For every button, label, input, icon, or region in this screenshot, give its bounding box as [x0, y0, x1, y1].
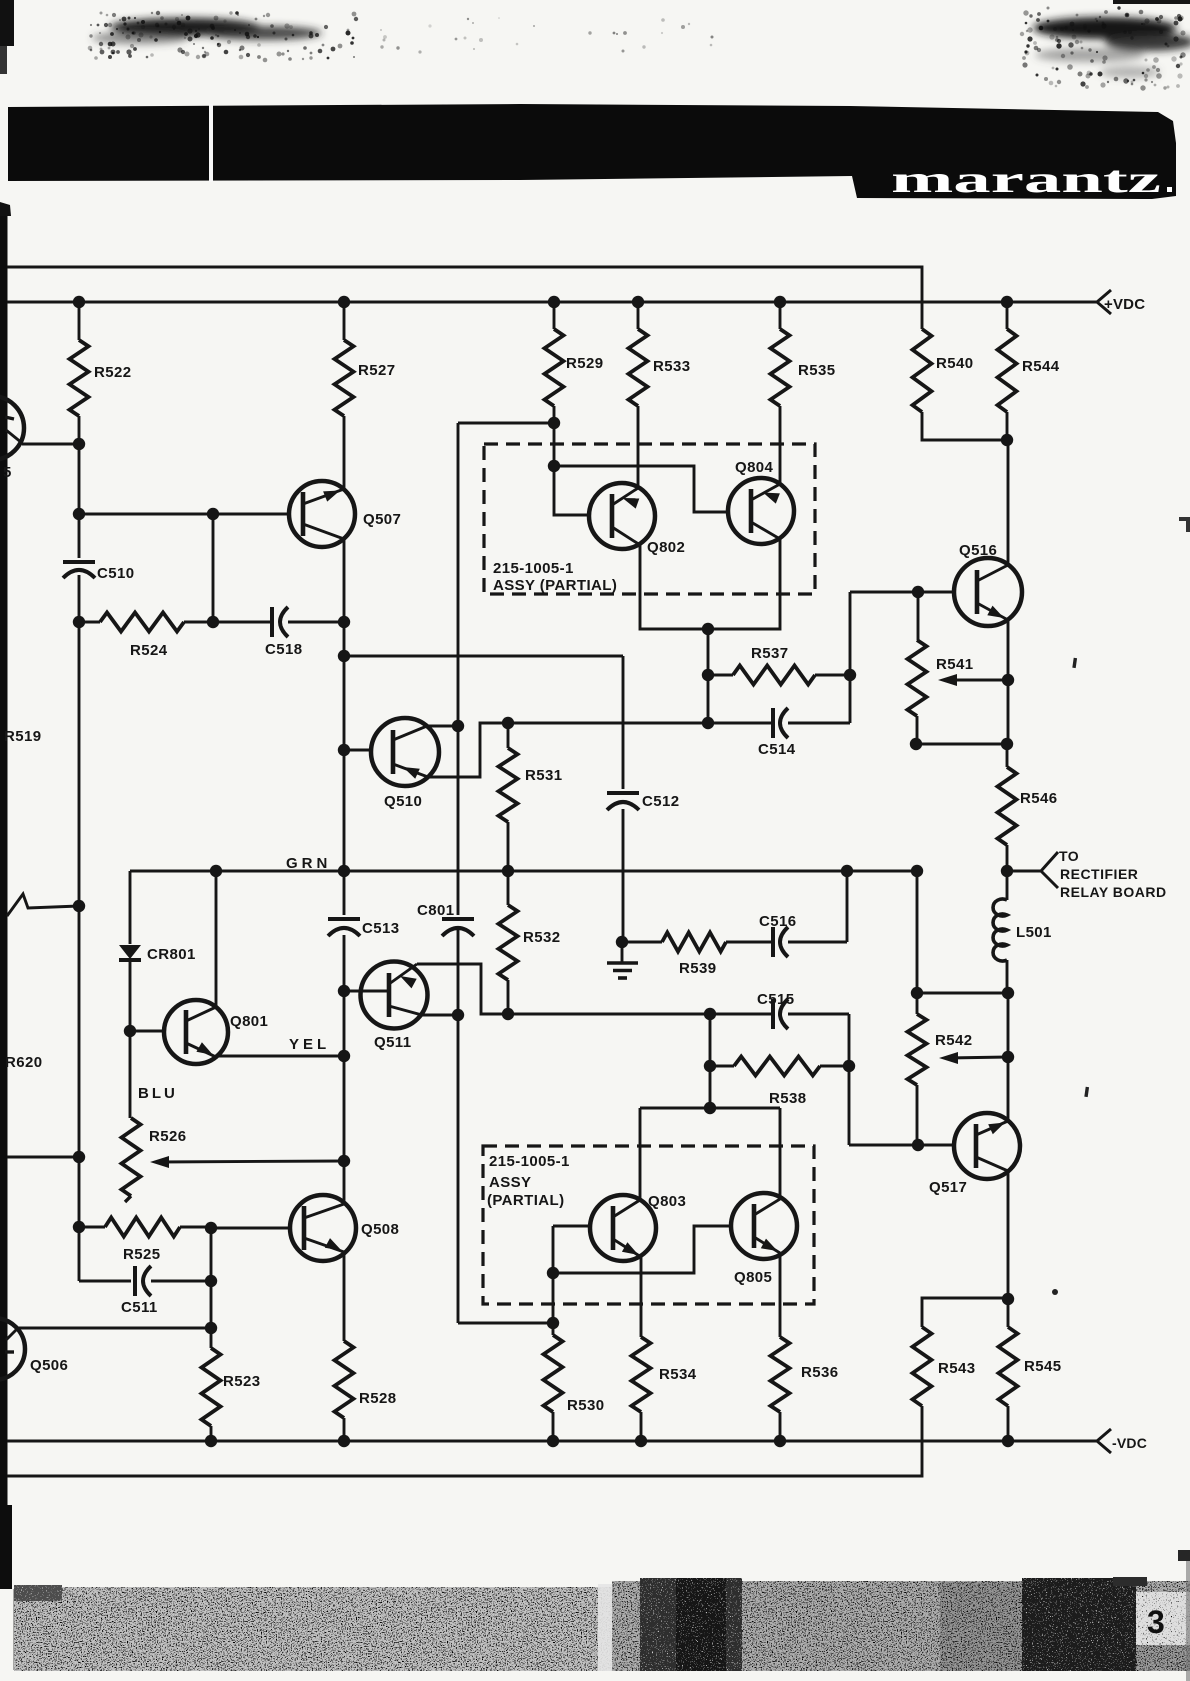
svg-text:R532: R532 [523, 929, 560, 946]
svg-text:Q508: Q508 [361, 1221, 399, 1238]
svg-text:C518: C518 [265, 641, 302, 658]
svg-text:TO: TO [1059, 848, 1079, 864]
svg-text:Q805: Q805 [734, 1269, 772, 1286]
svg-text:R533: R533 [653, 358, 690, 375]
svg-text:R530: R530 [567, 1397, 604, 1414]
svg-text:C512: C512 [642, 793, 679, 810]
svg-text:+VDC: +VDC [1104, 296, 1145, 313]
svg-text:Q804: Q804 [735, 459, 774, 476]
svg-text:R519: R519 [4, 728, 41, 745]
svg-text:C515: C515 [757, 991, 794, 1008]
svg-text:Q510: Q510 [384, 793, 422, 810]
svg-text:R541: R541 [936, 656, 973, 673]
svg-text:R534: R534 [659, 1366, 697, 1383]
svg-text:ASSY (PARTIAL): ASSY (PARTIAL) [493, 577, 617, 594]
svg-text:R528: R528 [359, 1390, 396, 1407]
svg-text:R538: R538 [769, 1090, 806, 1107]
svg-text:R544: R544 [1022, 358, 1060, 375]
svg-text:R546: R546 [1020, 790, 1057, 807]
svg-text:Q803: Q803 [648, 1193, 686, 1210]
svg-text:Q507: Q507 [363, 511, 401, 528]
svg-text:-VDC: -VDC [1112, 1435, 1147, 1451]
svg-text:CR801: CR801 [147, 946, 196, 963]
svg-text:R522: R522 [94, 364, 131, 381]
svg-text:C516: C516 [759, 913, 796, 930]
svg-text:R543: R543 [938, 1360, 975, 1377]
svg-text:215-1005-1: 215-1005-1 [493, 560, 574, 577]
svg-text:ASSY: ASSY [489, 1174, 531, 1191]
svg-text:Q802: Q802 [647, 539, 685, 556]
svg-text:R531: R531 [525, 767, 562, 784]
svg-text:L501: L501 [1016, 924, 1052, 941]
svg-text:R545: R545 [1024, 1358, 1061, 1375]
svg-text:R536: R536 [801, 1364, 838, 1381]
svg-text:(PARTIAL): (PARTIAL) [487, 1192, 564, 1209]
svg-text:R535: R535 [798, 362, 835, 379]
svg-text:C510: C510 [97, 565, 134, 582]
svg-text:Q506: Q506 [30, 1357, 68, 1374]
svg-text:Q517: Q517 [929, 1179, 967, 1196]
svg-text:Q801: Q801 [230, 1013, 268, 1030]
svg-text:RECTIFIER: RECTIFIER [1060, 866, 1138, 882]
svg-text:R537: R537 [751, 645, 788, 662]
svg-text:R539: R539 [679, 960, 716, 977]
svg-text:R523: R523 [223, 1373, 260, 1390]
svg-text:C514: C514 [758, 741, 796, 758]
svg-text:Q511: Q511 [374, 1034, 411, 1051]
svg-text:3: 3 [1147, 1604, 1165, 1640]
svg-text:R524: R524 [130, 642, 168, 659]
svg-text:R542: R542 [935, 1032, 972, 1049]
svg-text:RELAY BOARD: RELAY BOARD [1060, 884, 1167, 900]
svg-text:C513: C513 [362, 920, 399, 937]
svg-text:Q516: Q516 [959, 542, 997, 559]
svg-text:R525: R525 [123, 1246, 160, 1263]
svg-text:marantz: marantz [891, 159, 1161, 201]
svg-text:215-1005-1: 215-1005-1 [489, 1153, 570, 1170]
svg-text:R527: R527 [358, 362, 395, 379]
svg-text:R529: R529 [566, 355, 603, 372]
svg-text:GRN: GRN [286, 855, 331, 872]
svg-text:R540: R540 [936, 355, 973, 372]
svg-text:R620: R620 [5, 1054, 42, 1071]
svg-text:BLU: BLU [138, 1085, 178, 1102]
svg-text:R526: R526 [149, 1128, 186, 1145]
svg-text:C511: C511 [121, 1299, 158, 1316]
svg-text:YEL: YEL [289, 1036, 330, 1053]
svg-text:C801: C801 [417, 902, 454, 919]
svg-text:5: 5 [3, 464, 12, 481]
